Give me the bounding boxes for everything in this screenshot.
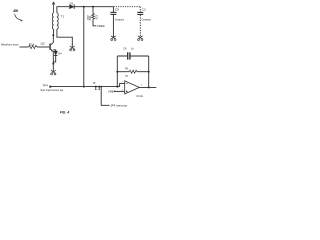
caption under TP4 — [40, 89, 64, 92]
svg-text:1: 1 — [141, 85, 143, 87]
figure caption FIG. 4 — [60, 111, 70, 115]
svg-text:Ceramic: Ceramic — [115, 19, 125, 22]
input net label — [1, 44, 19, 47]
transformer T1 secondary winding — [57, 13, 58, 29]
supply arrow (top of primary winding) — [53, 2, 55, 13]
svg-text:1n: 1n — [131, 47, 134, 51]
svg-text:400: 400 — [13, 9, 18, 13]
ground (below C2) — [138, 36, 143, 41]
node: resistor path left — [116, 71, 118, 73]
transistor Q2 — [41, 42, 45, 46]
zener D5 / resistor R21 column — [92, 7, 94, 14]
ground (below C9) — [111, 36, 116, 41]
svg-text:VREF: VREF — [97, 24, 105, 28]
capacitor C4 — [127, 52, 129, 59]
svg-text:906: 906 — [89, 15, 92, 20]
ground (secondary) — [70, 46, 75, 51]
resistor R1 — [129, 70, 137, 73]
node on rail — [83, 86, 85, 88]
wire: secondary bottom to ground — [57, 29, 72, 47]
node: zener tap — [92, 6, 94, 8]
wire: primary bottom to collector — [52, 29, 54, 35]
node: collector / primary junction — [52, 34, 54, 36]
node: emitter/diode junction — [52, 63, 54, 65]
diode D1 — [70, 5, 74, 9]
wire: VREF to plus input — [114, 90, 125, 92]
figure callout 400 — [13, 9, 18, 13]
svg-text:C2: C2 — [142, 8, 146, 12]
dashed wire to C2 — [113, 6, 140, 8]
svg-text:harmonics: harmonics — [116, 105, 128, 108]
op-amp input polarity marks — [126, 84, 128, 93]
svg-text:C9: C9 — [115, 8, 119, 12]
test point TP4 — [42, 84, 48, 88]
node: output/feedback junction — [148, 86, 150, 88]
wire: D1 cathode to top-right corner — [74, 6, 113, 8]
ground (emitter) — [51, 70, 56, 75]
wire: long vertical rail x=83.8 — [83, 7, 85, 87]
wire: down to JP label — [101, 87, 109, 106]
wire: secondary top to diode D1 — [57, 7, 70, 13]
capacitor C9 — [112, 7, 114, 12]
svg-text:D1: D1 — [70, 1, 74, 5]
svg-text:R21: R21 — [95, 14, 98, 19]
svg-text:Sync improvement sig.: Sync improvement sig. — [40, 89, 64, 92]
wire: down to ground — [52, 64, 54, 72]
svg-text:Waveform input: Waveform input — [1, 44, 19, 47]
net label VREF — [97, 24, 105, 28]
node: inverting input junction — [116, 86, 118, 88]
svg-text:TP4: TP4 — [42, 84, 48, 88]
feedback resistor path — [117, 71, 129, 73]
svg-text:67: 67 — [125, 75, 128, 78]
svg-text:Ceramic: Ceramic — [142, 19, 152, 22]
svg-text:J5: J5 — [93, 81, 96, 85]
feedback right leg — [148, 56, 150, 87]
svg-text:JP4: JP4 — [110, 104, 115, 108]
transformer T1 primary winding — [52, 13, 53, 29]
diode D4 (emitter branch) — [53, 50, 55, 51]
wire: op-amp output — [139, 86, 156, 88]
capacitor C2 — [139, 7, 141, 12]
callout leader arrow — [15, 14, 22, 20]
svg-text:D4: D4 — [58, 52, 62, 56]
svg-text:FIG. 4: FIG. 4 — [60, 111, 70, 115]
wire: R14 to base — [37, 46, 50, 48]
wire: input to R14 — [20, 46, 29, 48]
net label VREF (op-amp +) — [108, 89, 116, 93]
feedback top path with capacitor C4 — [117, 55, 148, 57]
jumper J5 — [93, 81, 96, 85]
node: JP tap — [100, 86, 102, 88]
wire: TP4 line to op-amp — [50, 86, 119, 88]
op-amp IC1A — [125, 81, 140, 94]
svg-text:T1: T1 — [61, 15, 65, 19]
resistor R14 — [29, 45, 37, 48]
node: resistor path right — [148, 71, 150, 73]
svg-text:Q2: Q2 — [41, 42, 45, 46]
wire: jog into minus input — [120, 84, 125, 87]
svg-text:C4: C4 — [123, 47, 127, 51]
svg-text:R1: R1 — [125, 66, 129, 70]
node: long rail tap — [83, 6, 85, 8]
label T1 — [61, 15, 65, 19]
svg-text:IC1A: IC1A — [137, 94, 143, 98]
feedback left leg — [116, 56, 118, 87]
svg-text:R14: R14 — [29, 42, 35, 46]
